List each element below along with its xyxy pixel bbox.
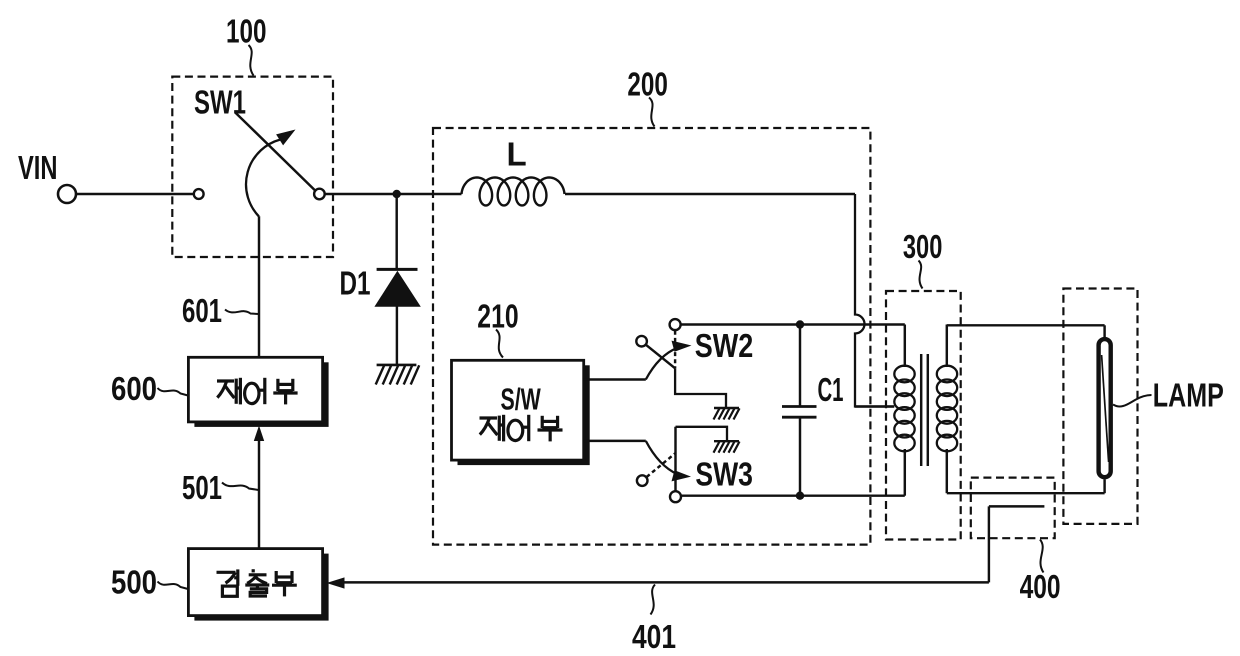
svg-text:600: 600 (111, 370, 157, 407)
svg-text:500: 500 (111, 564, 157, 601)
svg-text:210: 210 (477, 297, 518, 334)
svg-text:VIN: VIN (18, 149, 58, 186)
svg-text:300: 300 (903, 228, 943, 265)
svg-text:S/W: S/W (501, 381, 542, 416)
svg-text:L: L (507, 136, 527, 173)
svg-text:LAMP: LAMP (1153, 376, 1224, 413)
svg-text:501: 501 (182, 469, 222, 506)
svg-text:100: 100 (226, 12, 267, 49)
svg-text:400: 400 (1020, 568, 1061, 605)
svg-text:SW2: SW2 (695, 327, 754, 364)
svg-text:200: 200 (627, 66, 668, 103)
svg-text:SW1: SW1 (194, 84, 246, 121)
svg-text:601: 601 (182, 292, 222, 329)
svg-text:D1: D1 (340, 265, 371, 302)
svg-text:SW3: SW3 (695, 456, 753, 493)
svg-text:C1: C1 (818, 371, 844, 408)
svg-text:401: 401 (632, 618, 676, 655)
